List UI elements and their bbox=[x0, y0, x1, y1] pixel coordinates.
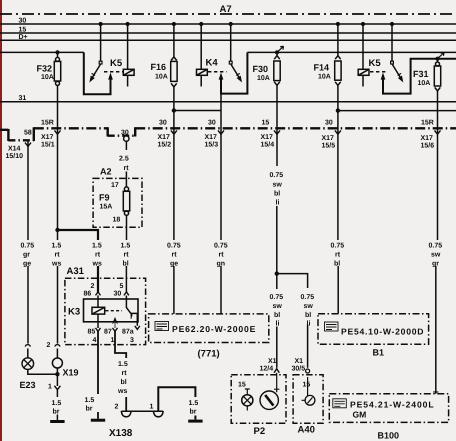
wire: K5 right coil to bus 30 bbox=[362, 24, 364, 69]
svg-text:30: 30 bbox=[159, 120, 167, 127]
svg-text:li: li bbox=[276, 320, 280, 328]
svg-text:0.75: 0.75 bbox=[301, 294, 315, 301]
svg-text:bl: bl bbox=[123, 260, 129, 268]
connector name X17 15/4 bbox=[261, 134, 275, 149]
svg-text:1: 1 bbox=[111, 337, 115, 344]
svg-text:rt: rt bbox=[124, 165, 130, 172]
svg-text:0.75: 0.75 bbox=[270, 294, 284, 301]
B100 sheet icon bbox=[333, 399, 347, 408]
terminal stud 30 bbox=[124, 136, 129, 141]
B100 box PE54.21-W-2400L bbox=[329, 394, 448, 423]
svg-text:10A: 10A bbox=[155, 74, 168, 81]
svg-text:sw: sw bbox=[273, 303, 283, 310]
svg-text:15/10: 15/10 bbox=[6, 152, 24, 160]
svg-text:rt: rt bbox=[95, 252, 101, 259]
wire label 0.75 sw bl li (15/4) bbox=[270, 172, 284, 207]
wire: K4 coil to bus 30 bbox=[200, 24, 202, 69]
svg-text:PE62.20-W-2000E: PE62.20-W-2000E bbox=[172, 324, 256, 334]
svg-text:X1: X1 bbox=[268, 358, 277, 365]
inline connector bump at X19 feed bbox=[55, 345, 60, 347]
wire: K5 left output path bbox=[84, 52, 111, 94]
svg-text:2.5: 2.5 bbox=[119, 156, 129, 163]
svg-text:K5: K5 bbox=[110, 58, 123, 69]
svg-text:1: 1 bbox=[150, 404, 154, 411]
svg-text:sw: sw bbox=[431, 252, 441, 259]
inline connector bump at E23 feed bbox=[25, 345, 30, 347]
svg-text:0.75: 0.75 bbox=[214, 243, 228, 250]
connector name X17 15/3 bbox=[205, 134, 219, 149]
bus 31 bbox=[0, 101, 456, 103]
svg-text:15/1: 15/1 bbox=[41, 141, 55, 149]
relay contact K4 bbox=[219, 61, 241, 81]
PE62 sheet icon bbox=[155, 322, 169, 331]
svg-text:rt: rt bbox=[172, 252, 178, 259]
svg-text:3: 3 bbox=[130, 337, 134, 344]
svg-text:rt: rt bbox=[219, 252, 225, 259]
svg-text:X17: X17 bbox=[205, 134, 218, 141]
svg-text:gn: gn bbox=[217, 261, 226, 268]
svg-text:15A: 15A bbox=[100, 204, 113, 211]
svg-text:rt: rt bbox=[122, 370, 128, 377]
A40 box bbox=[293, 375, 323, 424]
svg-text:rt: rt bbox=[124, 252, 130, 259]
svg-text:1.5: 1.5 bbox=[118, 361, 128, 368]
wire label 1.5 br (X138 gnd) bbox=[189, 400, 199, 416]
svg-text:87: 87 bbox=[104, 329, 112, 336]
svg-text:30: 30 bbox=[208, 120, 216, 127]
svg-text:0.75: 0.75 bbox=[167, 243, 181, 250]
relay coil K5 right bbox=[358, 69, 388, 75]
svg-text:10A: 10A bbox=[318, 74, 331, 81]
svg-text:bl: bl bbox=[274, 190, 280, 198]
connector name X17 15/6 bbox=[421, 135, 435, 150]
svg-text:2: 2 bbox=[115, 404, 119, 411]
svg-text:4: 4 bbox=[93, 337, 97, 344]
bus D+ bbox=[0, 39, 456, 41]
wire: X14 15/10 column down to E23 bbox=[27, 140, 29, 358]
wire label 1.5 rt bl ws (X138) bbox=[117, 361, 128, 395]
P2 lamp symbol bbox=[242, 389, 253, 411]
svg-text:br: br bbox=[53, 408, 60, 416]
wire label 0.75 rt ge bbox=[167, 243, 181, 268]
wire: K4 output riser bbox=[221, 52, 247, 93]
wire: K5 right switch feed from bus 30 bbox=[391, 24, 393, 61]
svg-text:li: li bbox=[307, 320, 311, 328]
label F16 bbox=[151, 62, 168, 81]
B100 wire entry tick bbox=[433, 391, 438, 393]
svg-text:15/3: 15/3 bbox=[205, 141, 219, 149]
svg-text:F31: F31 bbox=[413, 69, 429, 79]
svg-text:2: 2 bbox=[47, 342, 51, 349]
fuse F32 bbox=[54, 57, 60, 85]
wire label 0.75 sw bl li (A40 branch) bbox=[301, 294, 315, 328]
svg-text:1.5: 1.5 bbox=[52, 400, 62, 407]
svg-text:F30: F30 bbox=[253, 64, 269, 74]
wire label 1.5 br (X19) bbox=[52, 400, 62, 416]
svg-text:B1: B1 bbox=[373, 348, 385, 358]
svg-text:X17: X17 bbox=[41, 134, 54, 141]
A2 fuse holder box bbox=[93, 178, 142, 227]
wire: K4 riser column down through X17 15/3 bbox=[220, 94, 222, 314]
svg-text:X17: X17 bbox=[158, 134, 171, 141]
svg-text:15: 15 bbox=[303, 382, 311, 389]
P2 instrument cluster box bbox=[231, 375, 286, 424]
svg-text:12/4: 12/4 bbox=[260, 365, 274, 373]
wire label 1.5 rt ws bbox=[51, 243, 61, 268]
bus 15 bbox=[0, 32, 456, 34]
svg-text:K4: K4 bbox=[206, 58, 219, 69]
svg-text:86: 86 bbox=[84, 291, 92, 298]
E23 lamp bbox=[22, 358, 34, 370]
svg-text:F32: F32 bbox=[37, 64, 53, 74]
svg-text:1.5: 1.5 bbox=[92, 243, 102, 250]
wire: K5 left coil to bus 30 bbox=[127, 24, 129, 69]
page edge red bar bbox=[0, 0, 2, 441]
svg-text:D+: D+ bbox=[19, 34, 28, 41]
wire: A31 coil pin 85 to ground bbox=[97, 332, 99, 419]
svg-text:PE54.21-W-2400L: PE54.21-W-2400L bbox=[350, 400, 435, 410]
wire label 0.75 sw bl li (P2 branch) bbox=[270, 294, 284, 328]
label F30 bbox=[253, 64, 270, 82]
svg-text:F16: F16 bbox=[151, 62, 167, 72]
wire: F31 column down to X17 15/6 and B100 bbox=[436, 59, 438, 394]
svg-text:bl: bl bbox=[305, 311, 311, 319]
wire: 30 stud to F9 bbox=[125, 141, 127, 292]
svg-text:10A: 10A bbox=[257, 75, 270, 82]
label F32 bbox=[37, 64, 54, 82]
fuse F14 bbox=[335, 56, 341, 86]
relay K3 contact bbox=[113, 296, 137, 329]
P2 fuel gauge symbol bbox=[260, 373, 279, 410]
svg-text:85: 85 bbox=[88, 329, 96, 336]
svg-text:30/5: 30/5 bbox=[292, 365, 306, 373]
wire: K4 coil bottom stub bbox=[200, 75, 202, 86]
svg-text:ge: ge bbox=[170, 261, 178, 268]
B100 text bbox=[350, 400, 435, 420]
svg-text:X17: X17 bbox=[421, 135, 434, 142]
svg-text:X1: X1 bbox=[295, 358, 304, 365]
connector arrow X17 15/4 bbox=[274, 130, 280, 134]
X138 connector cups and bar bbox=[121, 411, 163, 417]
svg-text:ws: ws bbox=[92, 261, 102, 268]
svg-text:gr: gr bbox=[432, 261, 439, 268]
wire: X138 pin 1 to ground bbox=[158, 387, 195, 419]
connector name X17 15/2 bbox=[158, 134, 172, 149]
svg-text:K5: K5 bbox=[369, 58, 382, 69]
wire: K4 switch feed from bus 30 bbox=[230, 24, 232, 61]
wire label 1.5 rt ws (A31) bbox=[92, 243, 102, 268]
relay K3 coil bbox=[92, 295, 122, 328]
wire: E23 to X19 junction bbox=[28, 370, 58, 375]
fuse F30 bbox=[274, 56, 280, 86]
svg-text:GM: GM bbox=[353, 410, 367, 420]
svg-text:30: 30 bbox=[325, 120, 333, 127]
svg-text:30: 30 bbox=[19, 17, 27, 24]
branch F16 junction to K4 riser column bbox=[174, 110, 221, 112]
svg-text:br: br bbox=[86, 405, 93, 413]
connector arrow X17 15/5 bbox=[335, 130, 341, 134]
svg-text:15/5: 15/5 bbox=[322, 142, 336, 150]
svg-text:15: 15 bbox=[19, 26, 27, 33]
svg-text:ge: ge bbox=[23, 261, 31, 268]
wire label 1.5 br (pin85) bbox=[85, 397, 95, 413]
wire label 0.75 rt gn bbox=[214, 243, 228, 268]
svg-text:31: 31 bbox=[19, 95, 27, 102]
fuse F9 bbox=[123, 187, 129, 215]
svg-text:15/4: 15/4 bbox=[261, 141, 275, 149]
svg-text:P2: P2 bbox=[254, 426, 266, 437]
continuation arrow at F30 bbox=[277, 46, 284, 52]
svg-text:F9: F9 bbox=[99, 193, 110, 203]
A31 pin hooks 85/4, 87/1, 87a/3 bbox=[96, 326, 140, 332]
X19 connector circle bbox=[52, 358, 62, 368]
wire: F32 column down to X17 15/1 and X19 bbox=[56, 52, 58, 420]
svg-text:rt: rt bbox=[55, 252, 61, 259]
wire: F14 column from bus 30 down to X17 15/5 bbox=[337, 24, 339, 314]
X1 30/5 bbox=[292, 358, 306, 373]
connector arrow X17 15/2 bbox=[171, 130, 177, 134]
X1 12/4 connector hook bbox=[274, 369, 279, 373]
svg-text:X17: X17 bbox=[322, 135, 335, 142]
svg-text:1: 1 bbox=[48, 384, 52, 391]
svg-text:10A: 10A bbox=[41, 74, 54, 81]
connector arrow X17 15/1 bbox=[55, 130, 61, 134]
svg-text:B100: B100 bbox=[378, 431, 400, 441]
relay contact K5 right bbox=[381, 61, 403, 81]
svg-text:A7: A7 bbox=[220, 4, 232, 15]
svg-text:87a: 87a bbox=[122, 329, 134, 336]
wire: left feed line to F32 bbox=[0, 51, 84, 53]
svg-text:X138: X138 bbox=[109, 428, 133, 439]
svg-text:18: 18 bbox=[113, 217, 121, 224]
svg-text:li: li bbox=[276, 199, 280, 207]
branch F14 junction to right edge bbox=[338, 110, 456, 112]
wire size 2.5 rt bbox=[119, 156, 129, 173]
ground at A31 pin 85 bbox=[91, 419, 105, 422]
svg-text:15R: 15R bbox=[421, 120, 434, 127]
wire label 0.75 sw gr (15/6) bbox=[429, 243, 443, 268]
connector name X17 15/5 bbox=[322, 135, 336, 150]
connector name X14 15/10 bbox=[6, 146, 24, 161]
wire: A31 pin 87 to X138 pin 2 bbox=[115, 332, 126, 412]
svg-text:X17: X17 bbox=[261, 134, 274, 141]
svg-text:1.5: 1.5 bbox=[52, 243, 62, 250]
wire label 0.75 gr ge bbox=[21, 243, 35, 268]
X1 30/5 connector bbox=[306, 369, 310, 373]
wire: right feed line K4 to F30/F31 bbox=[247, 51, 456, 53]
svg-text:X14: X14 bbox=[8, 146, 21, 153]
svg-text:30: 30 bbox=[121, 130, 129, 137]
connector name X17 15/1 bbox=[41, 134, 55, 149]
svg-text:15R: 15R bbox=[41, 120, 54, 127]
svg-text:0.75: 0.75 bbox=[21, 243, 35, 250]
svg-text:10A: 10A bbox=[418, 80, 431, 87]
svg-text:gr: gr bbox=[23, 252, 30, 259]
wire label 1.5 rt bl bbox=[121, 243, 131, 268]
svg-text:bl: bl bbox=[334, 260, 340, 268]
svg-text:sw: sw bbox=[273, 182, 283, 189]
svg-text:E23: E23 bbox=[20, 380, 36, 390]
svg-text:ws: ws bbox=[117, 388, 127, 395]
svg-text:1.5: 1.5 bbox=[85, 397, 95, 404]
ground at X19 bbox=[50, 420, 64, 423]
bus 30 bbox=[0, 23, 456, 25]
label F31 bbox=[413, 69, 430, 87]
svg-text:F14: F14 bbox=[314, 63, 330, 73]
svg-text:A40: A40 bbox=[298, 425, 315, 436]
svg-text:bl: bl bbox=[121, 378, 127, 386]
svg-text:15/2: 15/2 bbox=[158, 141, 172, 149]
svg-text:br: br bbox=[190, 408, 197, 416]
A7 module bottom boundary with terminal notches bbox=[0, 127, 456, 141]
relay coil K5 left bbox=[104, 69, 134, 75]
svg-text:0.75: 0.75 bbox=[270, 172, 284, 179]
A31 relay box (dash-dot) bbox=[65, 278, 146, 344]
PE62.20-W-2000E box bbox=[149, 314, 269, 343]
label F9 bbox=[99, 193, 112, 211]
wire: F30 column down to X17 15/4 bbox=[276, 52, 278, 367]
svg-text:1.5: 1.5 bbox=[189, 400, 199, 407]
wire: F16 column from bus 30 down to X17 15/2 bbox=[173, 24, 175, 314]
branch 15R to A31 coil (bold) bbox=[58, 230, 99, 292]
relay coil K4 bbox=[197, 69, 227, 75]
relay contact K5 left bbox=[90, 61, 112, 81]
svg-text:15/6: 15/6 bbox=[421, 142, 435, 150]
label F14 bbox=[314, 63, 331, 81]
svg-text:PE54.10-W-2000D: PE54.10-W-2000D bbox=[341, 327, 424, 337]
connector arrow X14 15/10 bbox=[25, 143, 31, 147]
branch to A40 column bbox=[277, 274, 308, 368]
svg-text:5: 5 bbox=[120, 283, 124, 290]
connector arrow X17 15/3 bbox=[218, 130, 224, 134]
X1 12/4 bbox=[260, 358, 277, 373]
svg-text:A2: A2 bbox=[100, 167, 112, 177]
svg-text:15: 15 bbox=[238, 382, 246, 389]
wire: K5 right coil bottom stub bbox=[362, 75, 364, 86]
svg-text:1.5: 1.5 bbox=[121, 243, 131, 250]
fuse F16 bbox=[171, 57, 177, 87]
svg-text:bl: bl bbox=[274, 311, 280, 319]
relay K3 housing bbox=[84, 299, 139, 322]
B1 box PE54.10-W-2000D bbox=[318, 314, 429, 345]
svg-text:sw: sw bbox=[304, 303, 314, 310]
A31 pin hooks 2/86, 5/30 bbox=[96, 292, 129, 296]
A7 control module outline (dash-dot top border) bbox=[0, 13, 456, 15]
junction dots bbox=[99, 22, 103, 26]
svg-text:ws: ws bbox=[51, 261, 61, 268]
svg-text:X19: X19 bbox=[63, 368, 79, 378]
wire: K5 left coil bottom stub bbox=[127, 75, 129, 86]
svg-text:0.75: 0.75 bbox=[429, 243, 443, 250]
wire label 0.75 rt bl (15/5) bbox=[331, 243, 345, 268]
svg-text:17: 17 bbox=[111, 182, 119, 189]
B1 sheet icon bbox=[325, 322, 339, 331]
svg-text:(771): (771) bbox=[198, 349, 220, 360]
wire: K5 right output path bbox=[383, 59, 456, 94]
continuation arrow at F31 bbox=[438, 53, 445, 59]
svg-text:0.75: 0.75 bbox=[331, 243, 345, 250]
wire: K5 left switch feed from bus 30 bbox=[100, 24, 102, 61]
svg-text:2: 2 bbox=[91, 283, 95, 290]
svg-text:rt: rt bbox=[335, 252, 341, 259]
ground at X138 pin 1 bbox=[188, 420, 202, 423]
svg-text:30: 30 bbox=[114, 291, 122, 298]
svg-text:58: 58 bbox=[24, 130, 32, 137]
fuse F31 bbox=[434, 62, 440, 91]
svg-text:K3: K3 bbox=[68, 307, 80, 318]
svg-text:15: 15 bbox=[262, 120, 270, 127]
svg-text:A31: A31 bbox=[67, 266, 85, 277]
X19 pin 1 arrow bbox=[54, 386, 60, 390]
A40 valve symbol bbox=[302, 377, 315, 405]
connector arrow X17 15/6 bbox=[435, 130, 441, 134]
